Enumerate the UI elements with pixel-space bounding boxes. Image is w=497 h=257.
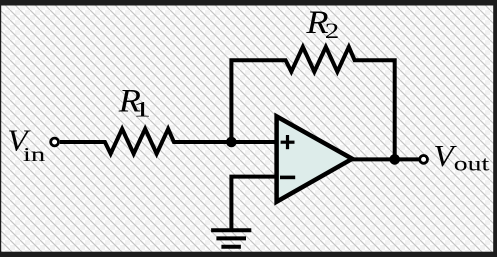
- svg-text:out: out: [454, 153, 490, 176]
- svg-text:2: 2: [325, 18, 340, 43]
- svg-text:1: 1: [133, 97, 151, 121]
- svg-text:in: in: [23, 144, 46, 166]
